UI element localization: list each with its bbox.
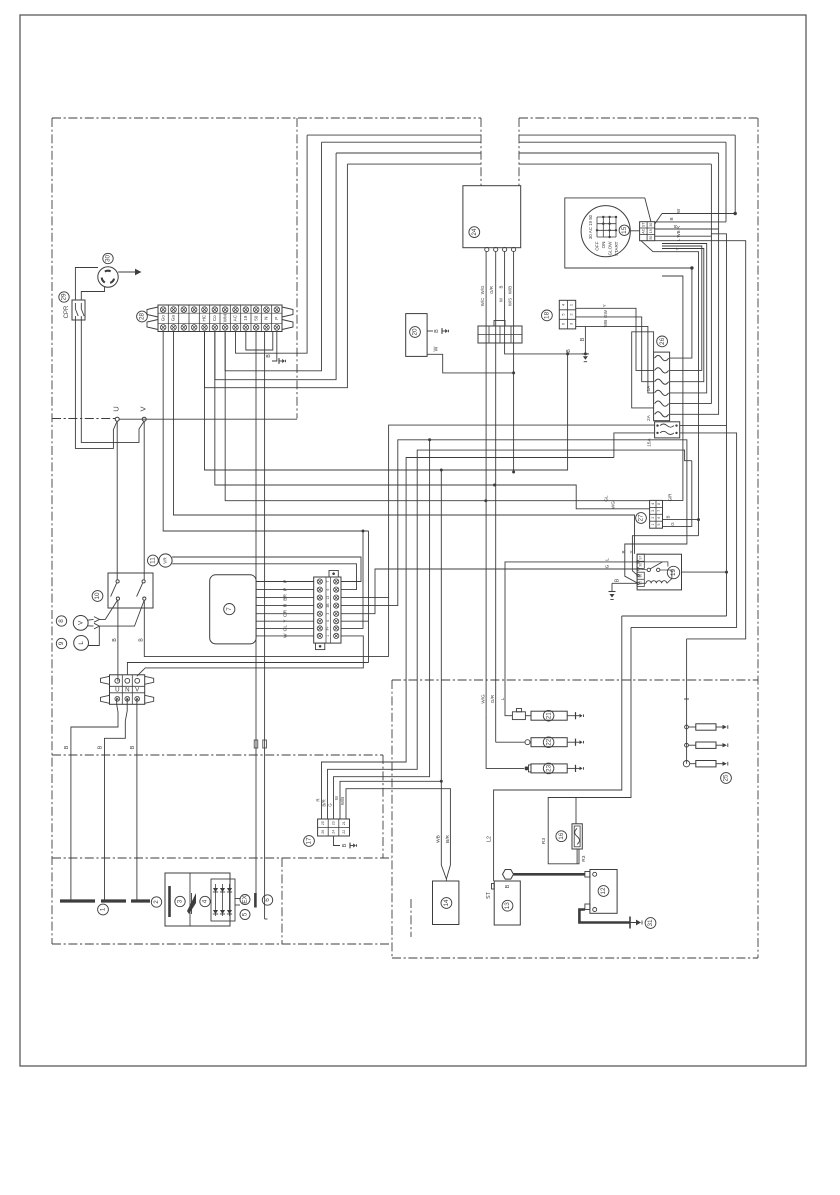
callout circle 28 bbox=[137, 311, 148, 322]
svg-text:28: 28 bbox=[139, 313, 146, 321]
callout circle 19 bbox=[667, 566, 679, 578]
wire corner right 3 bbox=[718, 153, 720, 229]
callout circle 5 bbox=[240, 910, 250, 920]
svg-text:17: 17 bbox=[306, 837, 313, 845]
wire U to switch bbox=[116, 421, 118, 580]
label ST bbox=[486, 891, 492, 899]
svg-text:30: 30 bbox=[649, 223, 653, 227]
svg-text:B: B bbox=[621, 550, 626, 553]
svg-text:4: 4 bbox=[651, 503, 655, 505]
label CPR bbox=[64, 305, 70, 318]
wire breaker to receptacle bottom bbox=[81, 287, 104, 300]
lamp 9 bbox=[74, 636, 89, 651]
resistor 23 bbox=[531, 764, 576, 773]
callout circle 4 bbox=[200, 896, 210, 906]
key switch link to connector bbox=[630, 230, 639, 232]
svg-text:50: 50 bbox=[649, 236, 653, 240]
callout circle EX bbox=[240, 895, 250, 905]
wire top run 3 bbox=[336, 152, 718, 154]
boundary notch left of unit 24 bbox=[480, 118, 482, 186]
wire 24 G/R bbox=[495, 252, 497, 743]
diode bridge 4 bbox=[211, 879, 235, 921]
wire 24 B bbox=[505, 252, 587, 356]
wire strip7 row8 to V bbox=[137, 636, 363, 676]
wire T6 nest bbox=[215, 153, 336, 380]
svg-text:Ga: Ga bbox=[171, 315, 176, 322]
svg-text:W: W bbox=[282, 633, 288, 638]
stator winding 1 bars bbox=[60, 899, 150, 902]
svg-text:9: 9 bbox=[58, 641, 65, 645]
wire WB from bus bbox=[340, 470, 443, 819]
callout circle 11 bbox=[148, 555, 159, 566]
lamp tap bbox=[88, 626, 99, 645]
svg-text:2A: 2A bbox=[646, 414, 652, 421]
bus y485 to 27 WG bbox=[215, 332, 650, 509]
svg-text:G: G bbox=[604, 564, 610, 568]
svg-text:11: 11 bbox=[150, 557, 157, 564]
svg-text:24: 24 bbox=[331, 830, 335, 834]
rectifier box bbox=[165, 873, 230, 926]
label 15A bbox=[647, 438, 653, 447]
bus y440 to relay bbox=[341, 438, 687, 605]
wire key Y slant bbox=[641, 241, 699, 536]
wire 14 stem bbox=[445, 879, 447, 881]
wire UNV U out bbox=[71, 699, 118, 901]
svg-text:GLOW: GLOW bbox=[607, 241, 612, 256]
svg-text:26: 26 bbox=[659, 337, 666, 345]
wire 24 W/G bbox=[485, 252, 487, 715]
wire WB to 14 bbox=[441, 781, 446, 879]
svg-text:13: 13 bbox=[326, 596, 330, 600]
svg-text:L: L bbox=[500, 697, 505, 700]
resistor group 25 bbox=[683, 639, 728, 767]
svg-text:B: B bbox=[97, 745, 103, 749]
connector 27 bbox=[650, 500, 663, 528]
wire f1 right bbox=[670, 268, 692, 358]
bus y457 to conn17 bbox=[322, 450, 614, 819]
svg-text:10: 10 bbox=[94, 592, 101, 600]
callout circle 27 bbox=[636, 513, 647, 524]
svg-text:ST: ST bbox=[641, 222, 645, 227]
svg-text:3: 3 bbox=[651, 510, 655, 512]
wire key W bbox=[655, 208, 737, 224]
svg-text:U: U bbox=[112, 406, 121, 411]
svg-text:G/R: G/R bbox=[668, 494, 673, 502]
wire bus T2 up bbox=[0, 0, 1, 1]
boundary dash-dot top right segment bbox=[519, 117, 758, 119]
svg-text:WB: WB bbox=[435, 835, 441, 843]
svg-text:2: 2 bbox=[651, 517, 655, 519]
svg-text:31: 31 bbox=[647, 919, 654, 927]
svg-text:OFF: OFF bbox=[595, 241, 600, 250]
wire f4 right bbox=[662, 244, 707, 393]
svg-text:3: 3 bbox=[177, 899, 184, 903]
svg-text:ST: ST bbox=[486, 891, 492, 899]
starter B terminal hex bbox=[503, 870, 514, 880]
svg-text:ST: ST bbox=[639, 556, 643, 560]
wire relay ground bbox=[609, 578, 638, 599]
svg-text:1A: 1A bbox=[646, 385, 652, 392]
svg-text:3B: 3B bbox=[326, 603, 330, 608]
harness connector under 24 bbox=[478, 321, 522, 344]
svg-text:W/G: W/G bbox=[481, 694, 486, 704]
wire breaker left to U loop bbox=[75, 320, 117, 448]
bus y470 bbox=[205, 332, 570, 472]
svg-text:L: L bbox=[78, 641, 85, 645]
label B gen mid bbox=[97, 745, 103, 749]
svg-text:7: 7 bbox=[226, 607, 233, 611]
label B ground strip28 bbox=[266, 354, 286, 364]
wire key 50 bbox=[655, 241, 746, 639]
svg-text:21: 21 bbox=[342, 821, 346, 825]
boundary dash-dot engine left vertical bbox=[391, 680, 393, 958]
svg-text:EX: EX bbox=[242, 895, 249, 904]
boundary dash-dot vertical at x282 bbox=[281, 858, 283, 944]
node V bbox=[139, 406, 148, 422]
connector 17 bbox=[318, 819, 350, 836]
capacitor bar 2 bbox=[168, 886, 171, 917]
svg-text:12: 12 bbox=[600, 887, 607, 895]
svg-text:30 AC 19 50: 30 AC 19 50 bbox=[588, 214, 593, 239]
wire T5 nest bbox=[205, 164, 348, 388]
callout circle 9 bbox=[56, 638, 66, 648]
svg-text:18: 18 bbox=[544, 311, 551, 319]
svg-text:B: B bbox=[64, 745, 70, 749]
wire breaker to receptacle top bbox=[75, 268, 98, 301]
starter box 13 bbox=[492, 881, 521, 925]
callout circle 13 bbox=[502, 900, 513, 911]
svg-text:1: 1 bbox=[326, 635, 330, 637]
svg-text:8: 8 bbox=[657, 503, 661, 505]
wire T9 small loop bbox=[246, 332, 273, 351]
wire key B bbox=[655, 217, 726, 221]
wire T8 nest bbox=[236, 135, 308, 353]
fuse block 15A bbox=[655, 422, 680, 438]
label B gen left bbox=[64, 745, 70, 749]
svg-text:23: 23 bbox=[545, 764, 552, 772]
ground arrow 23 bbox=[576, 765, 584, 772]
unit 7 box bbox=[210, 575, 256, 644]
switch 10 bbox=[108, 573, 153, 608]
unit 7 wire labels bbox=[282, 580, 288, 638]
svg-text:AC: AC bbox=[641, 228, 645, 233]
label WG bbox=[611, 501, 616, 509]
wire UV line bbox=[119, 418, 297, 420]
svg-text:3: 3 bbox=[326, 613, 330, 615]
label B gen right bbox=[130, 745, 136, 749]
VR circle bbox=[159, 554, 172, 567]
svg-text:26: 26 bbox=[321, 830, 325, 834]
svg-text:20: 20 bbox=[412, 328, 419, 336]
svg-text:W: W bbox=[676, 208, 681, 213]
boundary dash-dot bottom left bbox=[52, 943, 392, 945]
label R3 left bbox=[541, 838, 547, 844]
svg-text:25: 25 bbox=[321, 821, 325, 825]
wire 18 GW bbox=[576, 309, 654, 381]
svg-text:4: 4 bbox=[202, 899, 209, 903]
key switch 15 bbox=[581, 206, 630, 257]
callout circle 15 bbox=[619, 225, 629, 235]
wire key R bbox=[655, 224, 719, 229]
wire key LWB bbox=[655, 226, 712, 241]
svg-text:50: 50 bbox=[253, 315, 258, 321]
svg-text:N: N bbox=[264, 317, 269, 320]
svg-text:19: 19 bbox=[649, 229, 653, 233]
boundary dash-dot right side bbox=[757, 118, 759, 958]
wire G conn17 bbox=[334, 440, 430, 819]
wire UNV N out bbox=[105, 699, 128, 901]
wire R3 riser bbox=[576, 627, 631, 797]
wire top run 1 bbox=[307, 134, 735, 136]
ground arrow 21 bbox=[576, 712, 584, 719]
callout circle 17 bbox=[304, 836, 315, 847]
wire f3 right bbox=[662, 249, 704, 382]
wire relay G bbox=[341, 564, 638, 613]
wire T7 nest bbox=[225, 142, 321, 371]
svg-text:L WB R: L WB R bbox=[676, 226, 681, 241]
unit 20 B ground bbox=[427, 328, 448, 334]
connector 17 ground bbox=[334, 836, 357, 848]
boundary dash-dot mid horizontal y858 bbox=[52, 857, 392, 859]
svg-text:1: 1 bbox=[651, 524, 655, 526]
label L2 bbox=[486, 836, 492, 842]
svg-text:VR: VR bbox=[163, 557, 168, 564]
svg-text:24: 24 bbox=[471, 228, 478, 236]
terminal block UNV bbox=[101, 675, 154, 705]
svg-text:Y: Y bbox=[629, 550, 634, 553]
svg-text:4: 4 bbox=[326, 620, 330, 622]
callout circle 25 bbox=[721, 773, 732, 784]
label W unit20 bbox=[433, 346, 439, 351]
wire top run 4 bbox=[347, 163, 711, 165]
bus y501 to 27 GL bbox=[225, 332, 649, 503]
svg-text:8: 8 bbox=[58, 619, 65, 623]
label 2A bbox=[646, 414, 652, 421]
wire top run 2 bbox=[322, 141, 727, 143]
wire W/B conn17 and BR to 14 bbox=[346, 789, 450, 879]
label BR bbox=[445, 834, 451, 843]
label B starter bbox=[505, 884, 511, 888]
svg-text:G/R: G/R bbox=[489, 286, 494, 294]
svg-text:CPR: CPR bbox=[64, 305, 70, 318]
boundary dash-dot bottom right bbox=[392, 957, 758, 959]
voltmeter tap lower bbox=[88, 601, 145, 629]
boundary dash-dot generator output line bbox=[52, 418, 117, 420]
callout circle 6 bbox=[262, 895, 272, 905]
callout circle 14 bbox=[441, 898, 452, 909]
glow plug 23 bbox=[525, 765, 532, 772]
wire UNV V out bbox=[136, 699, 138, 901]
svg-text:R: R bbox=[316, 798, 321, 801]
wire 18 WB bbox=[576, 320, 654, 393]
wire block right bottom bbox=[631, 433, 737, 628]
boundary dash-dot short vertical x411 bbox=[410, 899, 412, 937]
svg-text:GL: GL bbox=[282, 625, 288, 632]
battery ground symbol bbox=[630, 917, 642, 929]
glow feed L wire bbox=[500, 558, 638, 716]
callout circle 1 bbox=[98, 904, 109, 915]
unit 24 box bbox=[463, 186, 521, 248]
svg-text:6: 6 bbox=[657, 517, 661, 519]
relay 19 bbox=[637, 554, 682, 590]
key switch box slant bbox=[645, 198, 651, 222]
svg-text:START: START bbox=[614, 241, 619, 256]
bus y425 to 15A block bbox=[341, 425, 655, 597]
wire breaker right to V loop bbox=[81, 320, 144, 442]
label B switch left bbox=[112, 638, 118, 642]
wire L2 riser bbox=[494, 616, 622, 881]
wire y616 run bbox=[622, 615, 727, 617]
callout circle 12 bbox=[598, 886, 609, 897]
svg-text:19: 19 bbox=[670, 569, 677, 577]
unit 24 terminals bbox=[485, 247, 516, 251]
svg-text:6: 6 bbox=[264, 898, 271, 902]
wire switch right to riser bbox=[144, 600, 388, 656]
glow plug 22 bbox=[525, 740, 531, 745]
svg-text:14: 14 bbox=[443, 899, 450, 907]
fuse 16 bbox=[572, 798, 582, 864]
label GL bbox=[604, 495, 609, 502]
wire T2 to bus bbox=[174, 332, 635, 554]
callout circle 16 bbox=[556, 831, 567, 842]
glow plug 21 bbox=[512, 709, 531, 720]
boundary dash-dot vertical at x297 bbox=[296, 118, 298, 419]
receptacle 30 socket bbox=[98, 267, 118, 287]
svg-text:7: 7 bbox=[657, 510, 661, 512]
callout circle 7 bbox=[224, 604, 235, 615]
svg-text:B: B bbox=[499, 285, 504, 288]
wire V to switch bbox=[143, 421, 145, 580]
wire T11 sliprail right bbox=[264, 332, 266, 920]
glow feed G/R bbox=[490, 694, 525, 742]
wire T1 to bus bbox=[163, 332, 368, 533]
callout circle 30 bbox=[103, 253, 113, 263]
svg-text:W/C: W/C bbox=[480, 298, 485, 307]
svg-text:22: 22 bbox=[545, 738, 552, 746]
receptacle output arrow bbox=[118, 269, 141, 275]
svg-text:R: R bbox=[282, 603, 288, 607]
svg-text:23: 23 bbox=[331, 821, 335, 825]
unit 7 terminal strip bbox=[314, 571, 341, 650]
scr wedge 3 bbox=[187, 893, 196, 914]
svg-text:B/R: B/R bbox=[445, 834, 451, 843]
svg-text:W/G: W/G bbox=[480, 285, 485, 294]
svg-text:OR: OR bbox=[282, 609, 288, 617]
thick cable battery ground bbox=[579, 910, 630, 923]
svg-text:29: 29 bbox=[61, 293, 68, 301]
boundary notch right of unit 24 bbox=[518, 118, 520, 186]
wire T10 sliprail left bbox=[255, 332, 257, 894]
callout circle 26 bbox=[657, 336, 668, 347]
bus y450 to conn17 bbox=[328, 450, 614, 819]
boundary dash-dot vertical at x383 bbox=[382, 755, 384, 858]
svg-text:21: 21 bbox=[545, 712, 552, 720]
svg-text:B: B bbox=[666, 515, 671, 518]
wire switch to UNV left bbox=[117, 600, 119, 681]
wire 18 B tap bbox=[580, 326, 589, 361]
svg-text:L: L bbox=[604, 558, 610, 561]
wire 27 right G bbox=[663, 461, 692, 527]
wire f6 right bbox=[670, 229, 719, 414]
svg-text:P: P bbox=[274, 317, 279, 320]
key switch box bbox=[565, 198, 692, 268]
wire 27 right B bbox=[632, 515, 700, 575]
svg-text:W/B: W/B bbox=[508, 286, 513, 294]
wire strip7 row7 up bbox=[341, 531, 363, 628]
callout circle 23 bbox=[543, 763, 554, 774]
boundary dash-dot generator bottom bbox=[52, 754, 383, 756]
svg-text:WB: WB bbox=[603, 320, 608, 327]
callout circle 24 bbox=[469, 227, 480, 238]
wire f2 right bbox=[662, 246, 702, 370]
label WB bbox=[435, 835, 441, 843]
resistor 21 bbox=[531, 711, 576, 720]
svg-text:B: B bbox=[669, 217, 674, 220]
svg-text:W: W bbox=[433, 346, 439, 351]
wire bridge to EX bbox=[235, 899, 240, 906]
connector ticks on slip wires bbox=[254, 740, 266, 748]
svg-text:V: V bbox=[77, 620, 84, 625]
wire VR bottom bbox=[172, 564, 356, 590]
svg-text:5: 5 bbox=[657, 524, 661, 526]
svg-text:B/R: B/R bbox=[322, 799, 327, 806]
svg-text:5: 5 bbox=[242, 912, 249, 916]
riser row6 bbox=[341, 531, 369, 663]
voltmeter tap upper bbox=[88, 601, 118, 623]
wire block lower loop bbox=[614, 433, 692, 461]
svg-text:19: 19 bbox=[243, 315, 248, 321]
boundary dash-dot left side bbox=[51, 118, 53, 944]
svg-text:WG: WG bbox=[611, 501, 616, 509]
junction dot key box bbox=[690, 266, 693, 269]
wire key B long vertical bbox=[711, 234, 726, 616]
labels 24 wires bbox=[480, 285, 513, 306]
callout circle 21 bbox=[543, 710, 554, 721]
svg-text:Go: Go bbox=[160, 315, 165, 322]
callout circle 20 bbox=[410, 327, 421, 338]
svg-text:Y: Y bbox=[675, 247, 680, 250]
callout circle 22 bbox=[543, 737, 554, 748]
circuit breaker 29 CPR bbox=[72, 300, 85, 320]
svg-text:W/B: W/B bbox=[340, 797, 345, 805]
svg-text:7: 7 bbox=[326, 580, 330, 582]
label R3 lower bbox=[581, 855, 587, 861]
wire corner right 1 bbox=[734, 135, 736, 213]
connector 18 bbox=[559, 300, 575, 329]
boundary dash-dot top left segment bbox=[52, 117, 481, 119]
svg-text:HC: HC bbox=[202, 314, 207, 321]
wire 27 right GR bbox=[662, 276, 683, 501]
wire relay right bbox=[682, 571, 729, 574]
svg-text:27: 27 bbox=[638, 514, 645, 522]
labels connector 17 wires bbox=[316, 795, 346, 807]
boundary dash-dot engine top bbox=[392, 679, 758, 681]
callout circle 3 bbox=[175, 896, 185, 906]
callout circle 31 bbox=[645, 918, 656, 929]
brush bar 6 bbox=[255, 893, 267, 919]
unit 20 W wire bbox=[427, 354, 513, 373]
svg-text:B: B bbox=[505, 884, 511, 888]
svg-text:R3: R3 bbox=[541, 838, 547, 844]
wire block right top bbox=[680, 424, 727, 426]
unit 14 box bbox=[433, 881, 459, 925]
svg-text:B: B bbox=[130, 745, 136, 749]
svg-text:BR: BR bbox=[282, 594, 288, 601]
svg-text:15A: 15A bbox=[647, 438, 653, 447]
svg-text:GW: GW bbox=[603, 309, 608, 318]
wire corner right 4 bbox=[710, 164, 712, 404]
svg-text:WM: WM bbox=[222, 314, 227, 322]
